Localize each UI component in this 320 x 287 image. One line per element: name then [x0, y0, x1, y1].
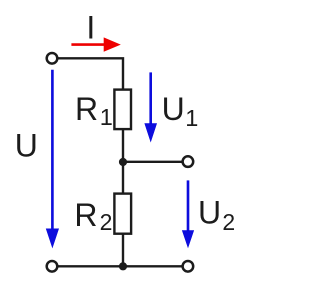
current arrow I (red)	[71, 37, 120, 51]
wire bottom rail	[58, 265, 183, 267]
svg-text:I: I	[86, 10, 95, 46]
svg-text:U: U	[15, 128, 38, 164]
svg-text:U: U	[198, 194, 221, 230]
terminal middle-right	[183, 156, 194, 167]
wire R2 bottom to bottom rail	[122, 234, 124, 266]
node bottom junction	[119, 262, 127, 270]
node middle junction	[119, 158, 127, 166]
voltage arrow U (blue)	[46, 70, 59, 249]
resistor R1	[114, 90, 131, 130]
wire R1 bottom to middle node	[122, 130, 124, 164]
terminal top-left	[47, 53, 58, 64]
svg-text:1: 1	[185, 105, 198, 131]
svg-text:1: 1	[100, 104, 113, 130]
terminal bottom-left	[47, 261, 58, 272]
svg-text:R: R	[75, 91, 98, 127]
wire middle node to R2 top	[122, 161, 124, 194]
svg-text:2: 2	[100, 209, 113, 235]
svg-text:2: 2	[222, 209, 235, 235]
resistor R2	[114, 194, 131, 234]
svg-text:R: R	[74, 197, 97, 233]
wire top rail	[58, 58, 124, 89]
terminal bottom-right	[183, 261, 194, 272]
voltage arrow U1 (blue)	[144, 72, 157, 142]
voltage arrow U2 (blue)	[182, 180, 194, 248]
wire middle rail	[123, 161, 183, 163]
svg-text:U: U	[162, 91, 185, 127]
